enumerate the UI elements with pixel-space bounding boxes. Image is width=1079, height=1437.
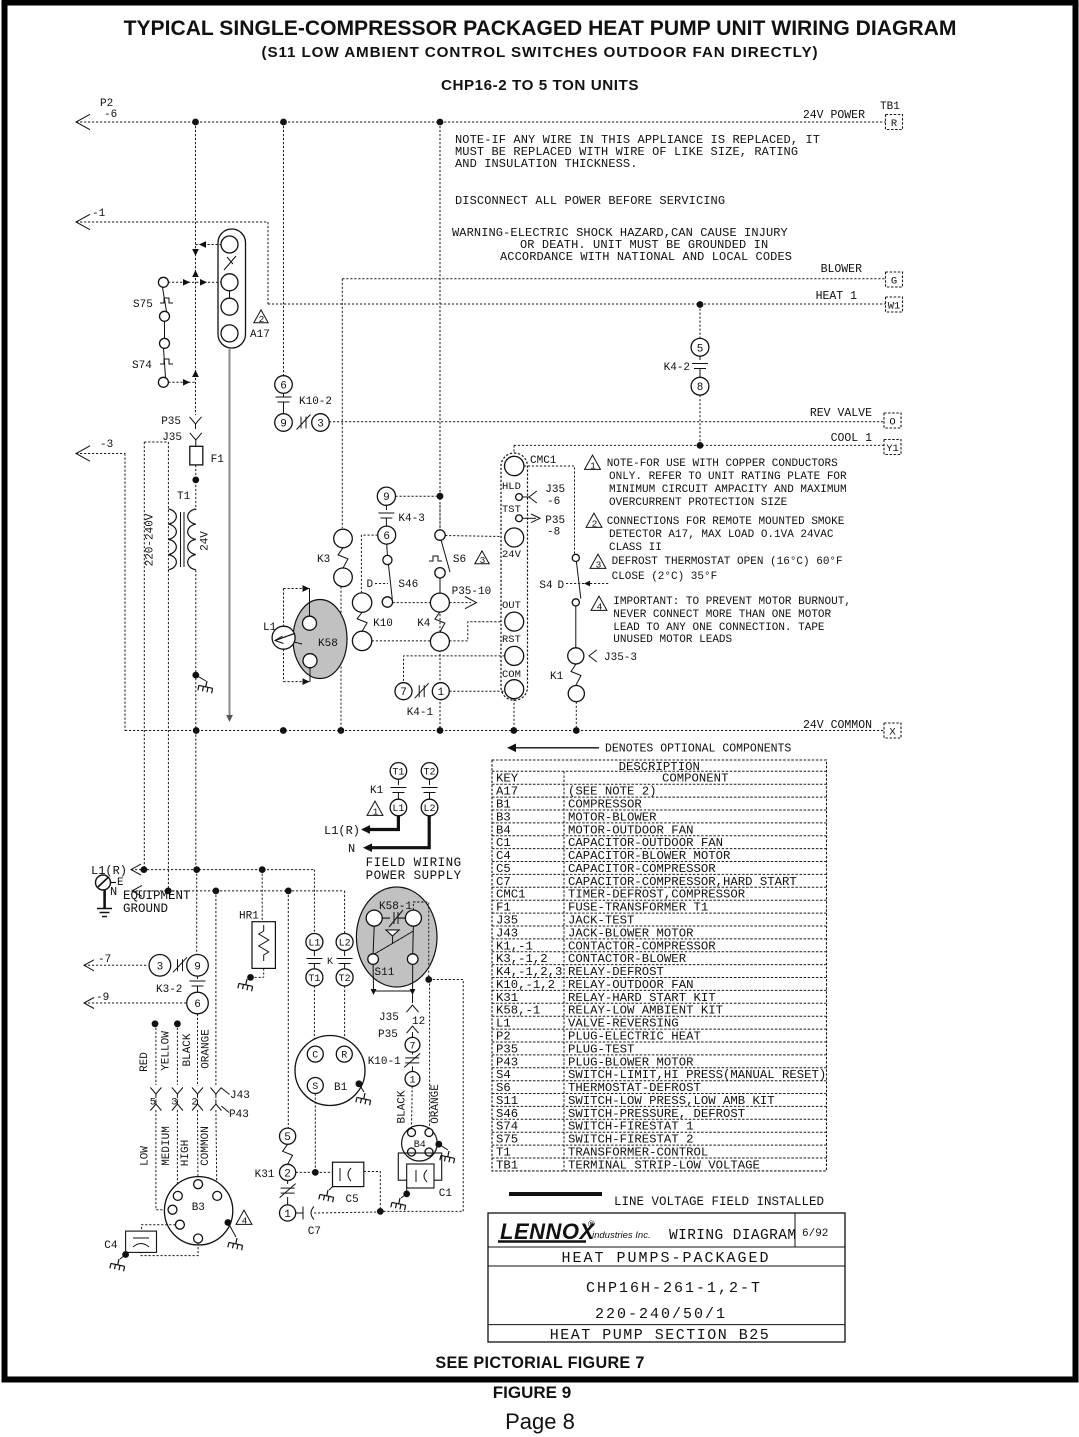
warning triangle 3 (S6) [475,551,489,564]
legend line voltage field installed [509,1192,602,1196]
terminal R [886,115,903,130]
terminal 5 / K31 coil [280,1128,296,1144]
wire L1 branch bottom [284,681,310,683]
line voltage riser rectangle [144,441,168,443]
svg-text:COMPONENT: COMPONENT [662,772,728,786]
svg-text:LINE VOLTAGE FIELD INSTALLED: LINE VOLTAGE FIELD INSTALLED [614,1195,824,1209]
svg-text:J35: J35 [545,484,565,496]
svg-text:4: 4 [597,601,603,612]
relay K58-1 optional area [356,887,437,987]
svg-text:RELAY-HARD START KIT: RELAY-HARD START KIT [568,991,716,1005]
svg-text:HR1: HR1 [239,911,259,923]
svg-text:T2: T2 [339,974,351,985]
svg-text:E: E [117,877,124,889]
svg-text:NEVER CONNECT MORE THAN ONE MO: NEVER CONNECT MORE THAN ONE MOTOR [613,609,831,621]
wire 6 to K10 coil [361,535,377,593]
svg-text:ORANGE: ORANGE [201,1029,213,1069]
relay contact K4-2 [699,305,701,339]
wire bus C x=440 [439,122,441,530]
svg-text:OUT: OUT [502,600,521,612]
terminal G [886,272,903,287]
svg-text:B4: B4 [414,1140,426,1151]
component description table [492,760,827,1171]
switch S46 [386,544,389,555]
wire BLOWER [342,278,885,280]
svg-text:J35: J35 [379,1012,399,1024]
svg-text:24V: 24V [200,531,212,551]
svg-text:220-240V: 220-240V [145,513,157,566]
wire C5 to junction [364,1172,381,1212]
svg-text:C: C [312,1051,318,1062]
svg-text:220-240/50/1: 220-240/50/1 [595,1306,727,1323]
svg-text:LENNOX: LENNOX [500,1219,596,1244]
svg-text:R: R [341,1051,347,1062]
svg-text:CHP16-2 TO 5 TON UNITS: CHP16-2 TO 5 TON UNITS [441,77,639,94]
svg-text:JACK-BLOWER MOTOR: JACK-BLOWER MOTOR [568,926,694,940]
K58-1 contacts [366,910,382,926]
svg-text:-6: -6 [547,496,560,508]
svg-text:T2: T2 [423,768,435,779]
svg-text:3: 3 [157,961,164,973]
outdoor fan motor B4 [402,1125,438,1161]
svg-text:HEAT PUMP SECTION B25: HEAT PUMP SECTION B25 [550,1327,771,1344]
svg-text:Page 8: Page 8 [505,1409,575,1434]
svg-text:L1: L1 [392,804,404,815]
svg-text:L2: L2 [339,939,351,950]
svg-text:X: X [889,727,896,739]
svg-text:T1: T1 [308,974,320,985]
svg-text:L1(R): L1(R) [91,864,127,878]
svg-text:K4-3: K4-3 [398,513,424,525]
K58 contact circles [303,616,317,630]
svg-text:2: 2 [259,314,265,325]
wire bus B x=283.5 [283,122,285,376]
svg-text:HLD: HLD [502,481,521,493]
A17 pin 2 [221,274,238,291]
wire REV VALVE [329,421,884,423]
svg-text:TYPICAL SINGLE-COMPRESSOR PACK: TYPICAL SINGLE-COMPRESSOR PACKAGED HEAT … [124,17,957,40]
svg-text:BLACK: BLACK [182,1033,194,1066]
wire B1 S to C5 [314,1094,316,1173]
svg-text:CONTACTOR-BLOWER: CONTACTOR-BLOWER [568,952,687,966]
svg-text:2: 2 [191,1097,197,1109]
relay coil K10 [352,593,371,612]
svg-text:HEAT 1: HEAT 1 [816,290,858,303]
svg-text:®: ® [588,1219,595,1229]
warning triangle 2 [254,310,268,323]
svg-text:ONLY. REFER TO UNIT RATING PLA: ONLY. REFER TO UNIT RATING PLATE FOR [609,471,847,483]
svg-text:TERMINAL STRIP-LOW VOLTAGE: TERMINAL STRIP-LOW VOLTAGE [568,1158,760,1172]
wire K4 bottom to OUT [449,622,504,641]
svg-text:YELLOW: YELLOW [161,1031,173,1071]
svg-text:B3: B3 [192,1202,205,1214]
svg-text:DEFROST THERMOSTAT OPEN (16°C): DEFROST THERMOSTAT OPEN (16°C) 60°F [612,556,843,568]
svg-text:HEAT PUMPS-PACKAGED: HEAT PUMPS-PACKAGED [561,1250,770,1267]
svg-text:P35: P35 [545,515,565,527]
capacitor C5 [333,1162,364,1186]
svg-text:K58,-1: K58,-1 [496,1004,540,1018]
svg-text:NOTE-FOR USE WITH COPPER CONDU: NOTE-FOR USE WITH COPPER CONDUCTORS [607,458,838,470]
CMC1 HLD pin [516,494,523,501]
svg-text:K58-1: K58-1 [379,901,412,913]
wire S11 left to J35-12 [372,964,374,991]
svg-text:P43: P43 [229,1109,249,1121]
CMC1 TST pin [516,515,523,522]
compressor B1 [295,1036,365,1106]
defrost timer CMC1 [501,453,528,700]
svg-text:R: R [891,118,898,130]
svg-text:S6: S6 [453,554,466,566]
svg-text:6: 6 [194,999,201,1011]
warning triangle 1 (field wiring) [367,801,383,815]
svg-text:L1: L1 [496,1017,511,1031]
note triangle 3 [590,554,606,568]
svg-text:L1: L1 [263,622,277,634]
switch S4 hi press limit [572,554,579,561]
wire right loop to C1/C7 junction [380,980,463,1212]
terminal X [884,723,901,738]
svg-text:J35: J35 [496,913,518,927]
svg-text:K1: K1 [550,671,564,683]
wire K10 to K4 bottom [372,640,431,642]
wire K58-1 top to junction [413,902,428,980]
svg-text:K4: K4 [417,618,431,630]
svg-text:8: 8 [697,382,704,394]
optional gray wire from A17 pin4 [229,348,231,716]
svg-text:COMMON: COMMON [200,1126,212,1166]
svg-text:S11: S11 [375,967,395,979]
svg-text:RELAY-OUTDOOR FAN: RELAY-OUTDOOR FAN [568,978,693,992]
svg-text:K31: K31 [496,991,518,1005]
wire L1 branch top [284,588,310,590]
svg-text:GROUND: GROUND [123,902,168,916]
svg-text:B1: B1 [334,1082,348,1094]
svg-text:RED: RED [139,1052,151,1072]
wire COMMON [215,1110,218,1190]
thermostat S6 [435,530,445,540]
svg-text:LOW: LOW [140,1146,152,1166]
svg-text:1: 1 [437,687,444,699]
relay K58 optional area [293,600,347,679]
svg-text:K10-1: K10-1 [368,1056,401,1068]
svg-text:5: 5 [697,343,704,355]
svg-text:CHP16H-261-1,2-T: CHP16H-261-1,2-T [586,1280,762,1297]
svg-text:N: N [348,842,355,856]
svg-text:3: 3 [480,555,486,566]
svg-text:ACCORDANCE WITH NATIONAL AND L: ACCORDANCE WITH NATIONAL AND LOCAL CODES [500,250,792,264]
wire RED [152,1020,159,1027]
wire S75 to A17 pin2 [168,281,221,283]
svg-text:3: 3 [317,418,324,430]
svg-text:-8: -8 [547,527,560,539]
svg-text:TST: TST [502,504,521,516]
wire B3 to C4 [142,1225,176,1231]
terminals L1 L2 [390,799,407,816]
svg-text:REV VALVE: REV VALVE [810,407,872,420]
capacitor C1 [398,1153,441,1180]
wire ORANGE to B4 [429,980,431,1129]
terminal W1 [886,297,903,312]
svg-text:K10,-1,2: K10,-1,2 [496,978,555,992]
switch S74 firestat 1 [160,338,170,348]
svg-text:2: 2 [592,518,598,529]
svg-text:1: 1 [284,1209,291,1221]
terminal 7 [405,1037,420,1052]
relay contact K4-3 [377,487,395,505]
svg-text:EQUIPMENT: EQUIPMENT [123,889,191,903]
svg-text:MEDIUM: MEDIUM [161,1126,173,1166]
svg-text:-1: -1 [92,208,106,220]
svg-text:K3-2: K3-2 [156,984,182,996]
svg-text:1: 1 [590,460,596,471]
svg-text:CLASS II: CLASS II [609,542,662,554]
svg-text:S4: S4 [539,580,553,592]
svg-text:industries Inc.: industries Inc. [592,1230,651,1241]
svg-text:AND INSULATION THICKNESS.: AND INSULATION THICKNESS. [455,157,638,171]
wire S11 right down [412,964,414,1003]
svg-text:K3,-1,2: K3,-1,2 [496,952,548,966]
wire bus A x=195 [195,122,197,415]
legend optional components [509,747,599,749]
svg-text:FIGURE 9: FIGURE 9 [493,1383,571,1402]
wire YELLOW [174,1020,181,1027]
wire S46 to K4 coil [393,602,431,604]
capacitor C7 hard start [296,1212,303,1214]
svg-text:K1,-1: K1,-1 [496,939,533,953]
svg-text:J43: J43 [230,1090,250,1102]
svg-text:DENOTES OPTIONAL COMPONENTS: DENOTES OPTIONAL COMPONENTS [605,743,791,756]
svg-text:9: 9 [383,492,390,504]
wire COOL 1 [514,444,884,446]
svg-text:COM: COM [502,669,521,681]
wire S74 to bus A [168,381,195,383]
svg-text:CONTACTOR-COMPRESSOR: CONTACTOR-COMPRESSOR [568,939,716,953]
svg-text:D: D [367,579,374,591]
svg-text:5: 5 [284,1132,291,1144]
svg-text:9: 9 [194,961,201,973]
note triangle 2 [586,513,602,527]
reversing valve solenoid L1 [272,626,295,649]
svg-text:S: S [312,1082,318,1093]
CMC1 pin top [505,456,524,475]
svg-text:MINIMUM CIRCUIT AMPACITY AND M: MINIMUM CIRCUIT AMPACITY AND MAXIMUM [609,484,847,496]
svg-text:T1: T1 [177,491,191,503]
svg-text:RST: RST [502,634,521,646]
svg-text:Y1: Y1 [886,443,899,455]
svg-text:J43: J43 [496,926,518,940]
svg-text:L1(R): L1(R) [324,824,360,838]
svg-text:RELAY-DEFROST: RELAY-DEFROST [568,965,664,979]
svg-text:-6: -6 [104,109,117,121]
svg-text:UNUSED MOTOR LEADS: UNUSED MOTOR LEADS [613,634,732,646]
svg-text:OVERCURRENT PROTECTION SIZE: OVERCURRENT PROTECTION SIZE [609,497,788,509]
field wiring terminals T1 T2 [390,763,407,780]
wire N to K31 [287,891,289,1128]
A17 pin 3 [221,298,238,315]
svg-text:G: G [891,276,897,288]
svg-text:6/92: 6/92 [802,1228,828,1240]
relay coil K4 [430,593,449,612]
svg-text:9: 9 [280,418,287,430]
wire BLACK to B4 [411,1086,414,1128]
svg-text:6: 6 [383,531,390,543]
svg-text:POWER SUPPLY: POWER SUPPLY [366,869,462,883]
svg-text:K31: K31 [255,1169,275,1181]
svg-text:5: 5 [150,1097,156,1109]
svg-text:2: 2 [284,1168,291,1180]
smoke detector module A17 [218,229,246,348]
svg-text:6: 6 [280,380,287,392]
contactor K1 lower contacts [306,934,323,951]
svg-text:K4-2: K4-2 [664,362,690,374]
relay contact K3-2 [149,955,171,977]
svg-text:C7: C7 [308,1226,321,1238]
heater HR1 [261,870,263,922]
wire MEDIUM [176,1110,178,1190]
svg-text:24V POWER: 24V POWER [803,109,865,122]
svg-text:S75: S75 [133,299,153,311]
svg-text:A17: A17 [250,329,270,341]
svg-text:IMPORTANT: TO PREVENT MOTOR BU: IMPORTANT: TO PREVENT MOTOR BURNOUT, [613,596,851,608]
svg-text:7: 7 [400,687,407,699]
svg-text:BLACK: BLACK [397,1090,409,1123]
CMC1 24V pin [505,528,524,547]
svg-text:C5: C5 [346,1194,359,1206]
svg-text:1: 1 [373,806,379,817]
svg-text:RELAY-LOW AMBIENT KIT: RELAY-LOW AMBIENT KIT [568,1004,723,1018]
svg-text:P35-10: P35-10 [452,586,492,598]
svg-text:TB1: TB1 [496,1158,518,1172]
capacitor C4 [126,1231,157,1252]
svg-text:P35: P35 [378,1029,398,1041]
svg-text:O: O [889,417,895,429]
svg-text:SEE PICTORIAL FIGURE 7: SEE PICTORIAL FIGURE 7 [435,1354,644,1372]
wire HIGH [197,1110,199,1178]
svg-text:3: 3 [596,559,602,570]
svg-text:J35-3: J35-3 [604,652,637,664]
svg-text:K10-2: K10-2 [299,396,332,408]
A17 pin 1 [221,236,238,253]
svg-text:K1: K1 [370,785,384,797]
svg-text:(S11 LOW AMBIENT CONTROL SWITC: (S11 LOW AMBIENT CONTROL SWITCHES OUTDOO… [262,44,819,61]
ground at transformer secondary [196,675,206,681]
svg-text:24V: 24V [502,549,522,561]
contactor coil K3 [334,529,353,548]
svg-text:K10: K10 [373,618,393,630]
svg-text:WIRING DIAGRAM: WIRING DIAGRAM [669,1228,796,1244]
svg-text:S74: S74 [132,360,152,372]
svg-text:VALVE-REVERSING: VALVE-REVERSING [568,1017,679,1031]
svg-text:CMC1: CMC1 [530,455,557,467]
svg-text:-3: -3 [100,439,113,451]
svg-text:JACK-TEST: JACK-TEST [568,913,634,927]
svg-text:L2: L2 [423,804,435,815]
jack J35-3 [568,648,584,664]
svg-text:ORANGE: ORANGE [430,1084,442,1124]
lennox title box [488,1213,845,1342]
svg-text:L1: L1 [308,939,320,950]
svg-text:DETECTOR A17, MAX LOAD O.1VA 2: DETECTOR A17, MAX LOAD O.1VA 24VAC [609,529,834,541]
svg-text:4: 4 [242,1215,248,1226]
svg-text:F1: F1 [211,454,225,466]
svg-text:12: 12 [412,1016,425,1028]
note triangle 1 [585,455,601,469]
svg-text:D: D [558,580,565,592]
A17 pin 4 [221,325,238,342]
svg-text:C1: C1 [439,1188,453,1200]
fuse F1 [190,446,203,465]
svg-text:LEAD TO ANY ONE CONNECTION. TA: LEAD TO ANY ONE CONNECTION. TAPE [613,622,825,634]
equipment ground [96,875,111,890]
svg-text:P35: P35 [161,416,181,428]
svg-text:C4: C4 [104,1240,118,1252]
svg-text:-9: -9 [96,992,109,1004]
svg-text:K4-1: K4-1 [407,707,434,719]
terminal O [884,413,901,428]
note triangle 4 [591,596,607,610]
svg-text:7: 7 [409,1041,415,1052]
relay contact K10-2 [275,376,293,394]
wire ORANGE from N [215,891,217,1085]
relay contact K4-1 [404,656,505,683]
wire bus A below [195,731,197,870]
switch S75 firestat 2 [158,277,168,287]
switch S11 [386,930,399,936]
blower motor B3 [164,1177,232,1245]
svg-text:S46: S46 [398,579,418,591]
svg-text:COOL 1: COOL 1 [831,432,873,445]
svg-text:K58: K58 [318,638,338,650]
svg-text:CLOSE (2°C) 35°F: CLOSE (2°C) 35°F [612,571,718,583]
wire A17 pin1 to bus A [196,244,222,246]
svg-text:HIGH: HIGH [180,1140,192,1166]
svg-text:-7: -7 [98,954,111,966]
svg-text:K: K [327,957,333,968]
wire CMC1 to S4 [524,466,575,554]
svg-text:CONNECTIONS FOR REMOTE MOUNTED: CONNECTIONS FOR REMOTE MOUNTED SMOKE [607,516,845,528]
svg-text:3: 3 [171,1097,177,1109]
svg-text:W1: W1 [888,301,901,313]
svg-text:1: 1 [409,1076,415,1087]
svg-text:FIELD WIRING: FIELD WIRING [366,856,462,870]
terminal Y1 [884,440,901,455]
svg-text:DISCONNECT ALL POWER BEFORE SE: DISCONNECT ALL POWER BEFORE SERVICING [455,194,725,208]
warning triangle 4 (B3) [236,1210,252,1224]
relay contact K31 [287,1181,289,1185]
svg-text:K4,-1,2,3: K4,-1,2,3 [496,965,562,979]
wire LOW [156,1110,166,1210]
svg-text:TB1: TB1 [880,101,900,113]
svg-text:K3: K3 [317,554,330,566]
svg-text:BLOWER: BLOWER [821,263,863,276]
svg-text:T1: T1 [392,768,404,779]
